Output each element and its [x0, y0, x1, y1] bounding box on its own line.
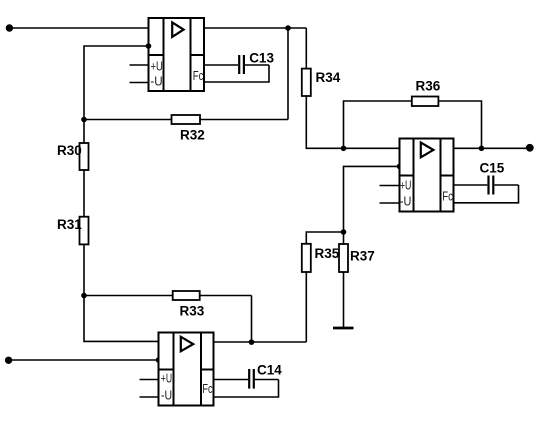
terminal dot: top input	[6, 24, 13, 31]
svg-text:-U: -U	[150, 74, 162, 89]
wire: R35 top leg to node E	[306, 232, 343, 244]
svg-text:C14: C14	[257, 362, 282, 377]
svg-text:R34: R34	[316, 70, 341, 85]
svg-text:R30: R30	[57, 143, 82, 158]
svg-text:Fc: Fc	[202, 381, 213, 396]
op-amp U2	[159, 333, 214, 406]
svg-text:+U: +U	[151, 59, 163, 74]
svg-text:C13: C13	[249, 50, 274, 65]
resistor R37	[339, 244, 348, 272]
wire: R33 right down to U2 output node D	[251, 296, 253, 343]
resistor R35	[302, 244, 311, 272]
U2 +U power stub	[140, 379, 159, 381]
capacitor C15	[454, 176, 519, 203]
wire: node C down and right to U2 first input	[84, 296, 159, 342]
svg-text:+U: +U	[400, 178, 412, 193]
svg-text:-U: -U	[400, 193, 412, 208]
resistor R36	[412, 97, 439, 107]
U3 +U power stub	[380, 185, 400, 187]
wire: R35 bottom leg	[305, 272, 307, 342]
wire: node E to R37 top	[343, 232, 345, 244]
U3 -U power stub	[380, 202, 400, 204]
resistor R33	[173, 291, 200, 300]
wire: R30 to R31	[83, 170, 85, 217]
wire: U1 output to node B	[204, 27, 306, 29]
svg-text:R35: R35	[315, 246, 340, 261]
wire: R36 left leg from node F	[344, 101, 412, 148]
wire: node B down to R32 line	[287, 28, 289, 120]
junction dot on U2 left edge	[156, 357, 162, 363]
junction dot on U1 left edge	[146, 43, 152, 49]
svg-text:+U: +U	[161, 371, 172, 386]
junction dot node B	[285, 25, 291, 31]
junction dot node D	[249, 339, 255, 345]
capacitor C13	[204, 55, 269, 82]
capacitor C14	[214, 369, 279, 397]
resistor R31	[80, 217, 89, 245]
U1 -U power stub	[130, 82, 149, 84]
junction dot on U3 left edge	[397, 164, 403, 170]
svg-text:C15: C15	[480, 160, 505, 175]
wire: R32 line from node A	[84, 119, 288, 121]
wire: R33 line from node C	[84, 295, 252, 297]
U2 -U power stub	[140, 396, 159, 398]
wire: U2 output line through node D	[214, 341, 307, 343]
junction dot node F	[341, 146, 347, 152]
wire: bottom input line to U2	[8, 359, 159, 361]
wire: U1 inverting input from node A	[84, 46, 149, 120]
svg-text:Fc: Fc	[193, 68, 204, 83]
junction dot node C	[81, 293, 87, 299]
op-amp U1	[149, 18, 205, 91]
junction dot node E	[341, 229, 347, 235]
wire: R34 bottom leg to node F and U3 first input	[306, 96, 399, 148]
wire: node E up to U3 second input	[344, 166, 400, 232]
svg-text:Fc: Fc	[442, 188, 453, 203]
wire: R34 top leg from node B	[305, 28, 307, 69]
terminal dot: bottom input	[5, 357, 12, 364]
junction dot node G	[479, 146, 485, 152]
wire: R36 right leg down to output node G	[438, 101, 481, 148]
svg-text:R32: R32	[180, 128, 205, 143]
resistor R30	[80, 143, 89, 170]
junction dot node A	[81, 117, 87, 123]
svg-text:R37: R37	[350, 249, 375, 264]
U1 +U power stub	[130, 64, 149, 66]
wire: top input line to U1	[9, 27, 149, 29]
svg-text:R33: R33	[180, 304, 205, 319]
svg-text:R31: R31	[57, 217, 82, 232]
svg-text:R36: R36	[416, 79, 441, 94]
ground	[333, 327, 354, 330]
op-amp U3	[400, 139, 454, 212]
wire: U3 output to output terminal	[454, 147, 531, 149]
wire: R31 to node C	[83, 244, 85, 295]
svg-text:-U: -U	[161, 388, 172, 403]
wire: R37 bottom to ground	[343, 272, 345, 328]
resistor R32	[172, 115, 201, 124]
wire: node A to R30	[83, 120, 85, 144]
resistor R34	[302, 69, 311, 96]
terminal dot: output	[526, 144, 534, 152]
